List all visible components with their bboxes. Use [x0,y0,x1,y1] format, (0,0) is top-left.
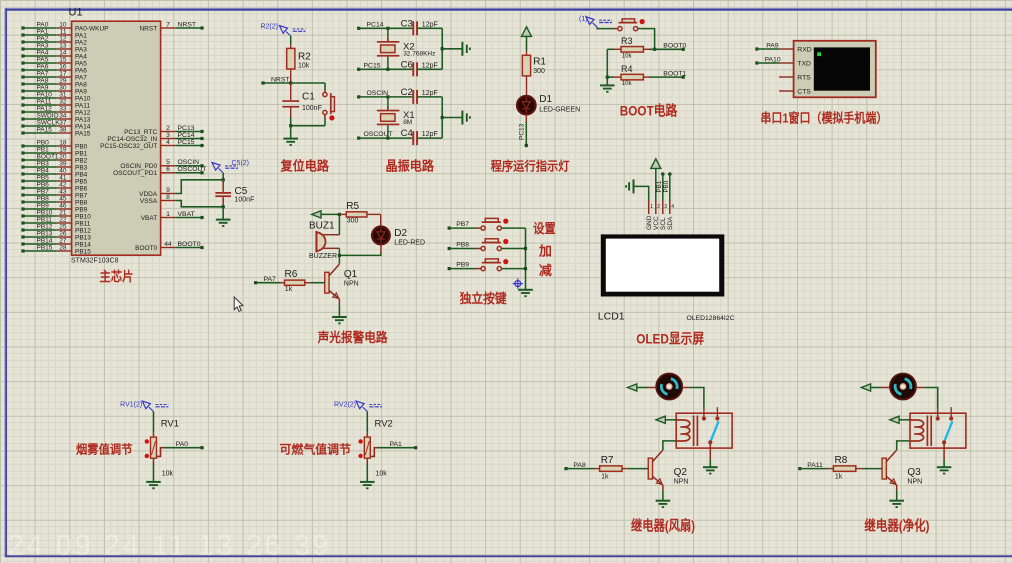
svg-text:12pF: 12pF [422,21,438,28]
svg-text:BUZ1: BUZ1 [309,221,335,232]
relay switch blade [711,421,719,441]
wire PA7 [256,282,281,284]
svg-text:Q1: Q1 [344,269,358,280]
U1 pin 4 (PC15-OSC32_OUT) [100,139,203,150]
virtual terminal body [794,41,876,98]
wire R5 to D2 [380,214,382,226]
U1 pin 34 (SWDIO) wire and labels [21,112,90,123]
svg-text:RV1(2): RV1(2) [120,401,142,408]
svg-text:RV1: RV1 [161,418,179,429]
svg-text:D2: D2 [394,228,407,239]
svg-text:PA8: PA8 [37,77,49,84]
relay contact common [702,409,706,421]
svg-text:42: 42 [59,181,67,188]
capacitor C5 [215,180,254,207]
svg-text:2: 2 [166,125,170,132]
U1 pin 8 (VSSA) [140,194,175,205]
ground relay [703,467,718,473]
svg-text:1: 1 [650,204,653,210]
node and wire PB9 [448,262,481,271]
wire right vertical [441,28,443,69]
U1 pin 17 (PA7) wire and labels [21,70,87,81]
node bottom [289,124,292,127]
wire C5 to ground [222,207,224,220]
svg-text:RXD: RXD [797,47,811,54]
U1 pin 6 (OSCOUT_PD1) [113,166,206,177]
svg-text:10k: 10k [622,53,633,59]
svg-text:PB2: PB2 [75,157,88,164]
svg-text:PA15: PA15 [37,126,53,133]
svg-text:OSCIN_PD0: OSCIN_PD0 [120,163,157,170]
wire buzzer top [338,214,340,234]
svg-text:NRST: NRST [139,25,157,32]
ground keys [518,290,533,296]
svg-text:100nF: 100nF [302,105,322,112]
U1 pin 31 (PA10) wire and labels [21,91,90,102]
svg-text:5: 5 [166,159,170,166]
svg-text:PA3: PA3 [37,42,49,49]
wire OSCIN [359,96,413,98]
svg-text:PA1: PA1 [75,32,87,39]
wire to ground [442,117,462,119]
wire keys vertical [525,228,527,290]
svg-text:VBAT: VBAT [178,211,195,218]
svg-text:R5: R5 [346,201,359,212]
svg-text:32.768KHz: 32.768KHz [403,51,435,58]
svg-text:PA14: PA14 [75,123,91,130]
svg-text:主芯片: 主芯片 [100,269,134,284]
resistor R3 [614,36,649,59]
node and wire PB8 [448,242,481,251]
wire D1 to PC13 [525,115,527,146]
capacitor C6 [401,59,438,76]
mouse cursor [234,297,243,311]
transistor Q3 [882,450,922,490]
node NRST [261,81,264,84]
svg-text:TXD: TXD [797,61,811,68]
svg-text:PA5: PA5 [75,60,87,67]
svg-text:PC13: PC13 [519,123,526,140]
wire RV2 to ground [366,464,368,482]
U1 pin 28 (PB15) wire and labels [21,244,91,255]
svg-text:6: 6 [166,166,170,173]
wire OLED SDA [668,172,672,200]
svg-text:PB13: PB13 [37,230,53,237]
relay contact common [936,409,940,421]
svg-text:PA7: PA7 [37,70,49,77]
svg-text:PB1: PB1 [37,146,50,153]
U1 pin 16 (PA6) wire and labels [21,63,87,74]
U1 pin 46 (PB9) wire and labels [21,202,87,213]
relay body [910,413,966,448]
svg-text:24 09 24 11 13 26 39: 24 09 24 11 13 26 39 [8,530,331,562]
svg-text:PB7: PB7 [37,188,50,195]
wire PA8 [566,468,595,470]
U1 pin 29 (PA8) wire and labels [21,77,87,88]
svg-text:PC13_RTC: PC13_RTC [124,129,157,136]
svg-text:32: 32 [59,98,67,105]
wire probe to RV1 [153,412,155,433]
potentiometer RV1 [145,418,179,477]
svg-text:45: 45 [59,195,67,202]
wire to ground [290,126,292,139]
svg-text:31: 31 [59,91,67,98]
capacitor C2 [401,87,438,104]
svg-text:12: 12 [59,35,67,42]
wire right vertical [441,97,443,138]
svg-text:NPN: NPN [344,281,359,288]
capacitor C4 [401,128,438,145]
relay pivot [708,440,712,459]
svg-text:LED-RED: LED-RED [394,240,425,247]
wire button to bottom [324,115,326,126]
svg-text:Q2: Q2 [674,467,688,478]
svg-text:C4: C4 [401,128,413,139]
resistor R2 [287,44,312,83]
wire PC15 [359,68,413,70]
wire C1 to bottom [290,117,292,126]
LED D2 [372,227,425,247]
terminal pin TXD [779,61,811,68]
U1 pin 15 (PA5) wire and labels [21,56,87,67]
svg-text:PA9: PA9 [37,84,49,91]
wire probe to RV2 [366,412,368,433]
node OSCOUT [357,137,360,140]
U1 pin 30 (PA9) wire and labels [21,84,87,95]
U1 pin 1 (VBAT) [141,211,204,222]
svg-text:D1: D1 [539,94,552,105]
svg-text:PB11: PB11 [75,220,91,227]
svg-text:PB9: PB9 [456,262,469,269]
svg-text:PB1: PB1 [75,150,88,157]
push button PB8 [481,239,508,251]
relay contact NO [949,407,953,420]
wire OSCOUT [359,137,413,139]
relay switch blade [945,421,953,441]
svg-text:继电器(净化): 继电器(净化) [864,517,929,533]
svg-text:PA15: PA15 [75,130,91,137]
transistor Q1 [325,264,359,304]
probe label R2(2) [260,23,305,36]
wire C2 right [418,96,442,98]
svg-text:11: 11 [60,28,67,35]
svg-text:8M: 8M [403,119,412,126]
node keys PB8 [524,247,527,250]
svg-text:串口1窗口（模拟手机端）: 串口1窗口（模拟手机端） [760,110,887,125]
wire C6 right [418,68,442,70]
wire OLED SCL [661,172,665,200]
node PC14 [357,27,360,30]
svg-text:PB13: PB13 [75,234,91,241]
U1 pin 39 (PB3) wire and labels [21,160,87,171]
svg-text:PC15-OSC32_OUT: PC15-OSC32_OUT [100,143,157,150]
node PA11 [798,467,801,470]
svg-text:PB5: PB5 [75,178,88,185]
wire VDDA to C5 [175,180,222,194]
svg-text:BOOT1: BOOT1 [37,153,59,160]
svg-text:PA0: PA0 [37,21,49,28]
svg-text:RV2: RV2 [375,418,393,429]
svg-text:PB8: PB8 [456,242,469,249]
wire to ground [442,48,462,50]
node PA7 [254,281,257,284]
terminal pin RXD [779,47,812,54]
ground RV1 [146,482,161,488]
node crystal top [386,95,389,98]
U1 pin 45 (PB8) wire and labels [21,195,87,206]
svg-text:PB6: PB6 [75,185,88,192]
wire button to BOOT0 node [638,29,655,50]
svg-text:PC14: PC14 [178,132,195,139]
svg-text:100nF: 100nF [235,196,255,203]
svg-text:43: 43 [59,188,67,195]
ground crystal [462,111,470,125]
svg-text:1k: 1k [285,286,293,293]
ground relay [937,467,952,473]
wire R6 to Q1 [310,282,324,284]
svg-text:PA6: PA6 [75,67,87,74]
svg-text:复位电路: 复位电路 [280,158,330,173]
crystal X2 [377,28,435,69]
wire motor to relay [916,388,938,409]
svg-text:44: 44 [164,241,172,248]
node PA10 [755,61,758,64]
wire R7 to Q2 [628,468,648,470]
svg-text:R1: R1 [533,57,546,68]
svg-text:C1: C1 [302,91,315,102]
OLED display LCD1 [601,234,725,296]
svg-text:烟雾值调节: 烟雾值调节 [76,441,133,456]
power arrow D1 [522,27,532,37]
svg-text:PB1: PB1 [656,180,663,192]
svg-text:NPN: NPN [674,478,689,485]
svg-text:33: 33 [59,105,67,112]
svg-text:17: 17 [59,70,67,77]
power arrow coil [890,416,899,423]
svg-text:PA10: PA10 [37,91,53,98]
svg-text:PB4: PB4 [37,167,50,174]
wire R4 left [607,76,614,78]
wire arrow to motor [871,387,891,389]
svg-text:14: 14 [59,49,67,56]
svg-text:34: 34 [59,112,67,119]
svg-text:38: 38 [59,126,67,133]
ground Q2 [656,501,671,507]
svg-text:PB0: PB0 [75,143,88,150]
svg-text:VCC: VCC [653,216,660,230]
push button PB9 [481,259,508,271]
wire PA11 [800,468,829,470]
svg-text:18: 18 [59,139,67,146]
ground C5 [216,220,231,226]
U1 pin 25 (PB12) wire and labels [21,223,91,234]
wire probe to C5 [222,173,224,180]
power arrow OLED VCC [651,159,661,169]
fan motor [656,374,682,400]
U1 pin 10 (PA0) wire and labels [21,21,108,32]
svg-text:10: 10 [59,21,67,28]
resistor R5 [339,201,380,225]
wire emitter to ground [662,490,664,501]
svg-text:40: 40 [59,167,67,174]
resistor R7 [595,455,629,480]
wire arrow to motor [637,387,657,389]
wire OLED VCC [655,168,657,201]
svg-text:26: 26 [59,230,67,237]
wire RV1 to ground [153,464,155,482]
LED D1 [517,94,580,114]
svg-text:晶振电路: 晶振电路 [386,158,435,173]
svg-text:PB10: PB10 [75,213,91,220]
relay coil [676,416,697,447]
U1 pin 12 (PA2) wire and labels [21,35,87,46]
svg-text:OLED显示屏: OLED显示屏 [636,331,704,347]
wire power to node [321,213,340,215]
svg-text:1: 1 [166,211,170,218]
transistor Q2 [648,450,688,490]
node R2/C1 [289,81,292,84]
svg-text:PA12: PA12 [37,105,53,112]
svg-text:PA5: PA5 [37,56,49,63]
wire collector [338,255,340,263]
svg-text:1k: 1k [601,474,609,481]
svg-text:4: 4 [166,139,170,146]
node PC13 [525,144,528,147]
wire left vertical [606,49,608,85]
svg-text:SWDIO: SWDIO [37,112,59,119]
svg-text:VDDA: VDDA [139,191,158,198]
svg-text:PA12: PA12 [75,109,91,116]
wire BOOT1 [649,76,683,78]
U1 pin 43 (PB7) wire and labels [21,188,87,199]
svg-text:PB3: PB3 [37,160,50,167]
svg-text:OSCIN: OSCIN [367,90,389,97]
wire probe to button [597,27,617,28]
ground Q1 [332,317,347,323]
ground reset [283,139,298,145]
svg-text:C3: C3 [401,18,413,29]
capacitor C1 [282,83,322,117]
svg-text:PA2: PA2 [37,35,49,42]
OLED pin 3 stub [663,201,668,215]
svg-text:NPN: NPN [907,478,922,485]
U1 pin 19 (PB1) wire and labels [21,146,87,157]
node PC15 [357,68,360,71]
svg-text:RTS: RTS [797,75,811,82]
svg-text:41: 41 [59,174,67,181]
origin marker [513,278,523,288]
wire pivot to ground [709,460,711,468]
svg-text:OSCOUT: OSCOUT [178,166,207,173]
wire arrow to coil [899,419,910,421]
svg-text:PB14: PB14 [37,237,53,244]
svg-text:PB5: PB5 [37,174,50,181]
node BOOT1 end [682,76,685,79]
wire PA9 [757,48,779,50]
svg-text:LCD1: LCD1 [598,311,625,323]
fan motor [890,374,916,400]
svg-text:12pF: 12pF [422,62,438,69]
U1 pin 14 (PA4) wire and labels [21,49,87,60]
wire PC14 [359,27,413,29]
ground OLED [626,179,633,193]
svg-text:U1: U1 [69,7,83,19]
U1 pin 2 (PC13_RTC) [124,125,204,136]
wire probe to R2 [290,36,292,44]
node C5 bottom [222,205,225,208]
power arrow alarm [312,211,321,218]
svg-text:37: 37 [59,119,67,126]
svg-text:设置: 设置 [533,221,556,236]
svg-text:R8: R8 [835,455,848,466]
svg-text:CTS: CTS [797,89,811,96]
svg-text:10k: 10k [376,470,388,477]
node and wire PB7 [448,221,481,230]
node crystal top [386,27,389,30]
svg-text:20: 20 [59,153,67,160]
push button PB7 [481,218,508,230]
crystal X1 [377,97,415,138]
node R4 left [606,76,609,79]
probe label (1) [579,16,612,27]
svg-text:19: 19 [59,146,67,153]
U1 pin 33 (PA12) wire and labels [21,105,90,116]
U1 pin 38 (PA15) wire and labels [21,126,90,137]
resistor R4 [614,64,649,87]
svg-text:PA11: PA11 [37,98,52,105]
svg-text:SWCLK: SWCLK [37,119,61,126]
svg-text:PB12: PB12 [75,227,91,234]
node collector [338,254,341,257]
resistor R1 [522,51,546,96]
svg-text:SCL: SCL [660,217,667,230]
svg-text:4: 4 [671,204,674,210]
U1 pin 22 (PB11) wire and labels [21,216,90,227]
power arrow motor [861,384,870,391]
svg-text:10k: 10k [298,63,310,70]
ground crystal [462,42,470,56]
svg-text:12pF: 12pF [422,90,438,97]
svg-text:21: 21 [59,209,67,216]
svg-text:BOOT0: BOOT0 [135,245,157,252]
svg-text:25: 25 [59,223,67,230]
wire pivot to ground [943,460,945,468]
wire BOOT0 [649,48,683,50]
svg-text:PA11: PA11 [75,102,90,109]
IC U1 STM32F103C8 body [72,21,161,255]
svg-text:PB0: PB0 [37,139,50,146]
svg-text:PB14: PB14 [75,241,91,248]
ground BOOT [600,85,615,91]
svg-text:LED-GREEN: LED-GREEN [539,107,580,114]
svg-text:减: 减 [539,263,552,278]
terminal screen [814,47,870,90]
node BOOT0 [653,48,656,51]
svg-text:16: 16 [59,63,67,70]
wire R8 to Q3 [862,468,882,470]
svg-text:STM32F103C8: STM32F103C8 [71,258,119,265]
relay contact NO [715,407,719,420]
resistor R8 [828,455,862,480]
wire VSSA to C5 [175,201,222,207]
svg-text:可燃气值调节: 可燃气值调节 [280,441,352,456]
svg-text:PB7: PB7 [75,192,88,199]
power arrow coil [656,416,665,423]
svg-text:C5: C5 [235,186,248,197]
wire motor to relay [682,388,704,409]
svg-text:300: 300 [347,218,359,225]
svg-text:3: 3 [664,204,667,210]
